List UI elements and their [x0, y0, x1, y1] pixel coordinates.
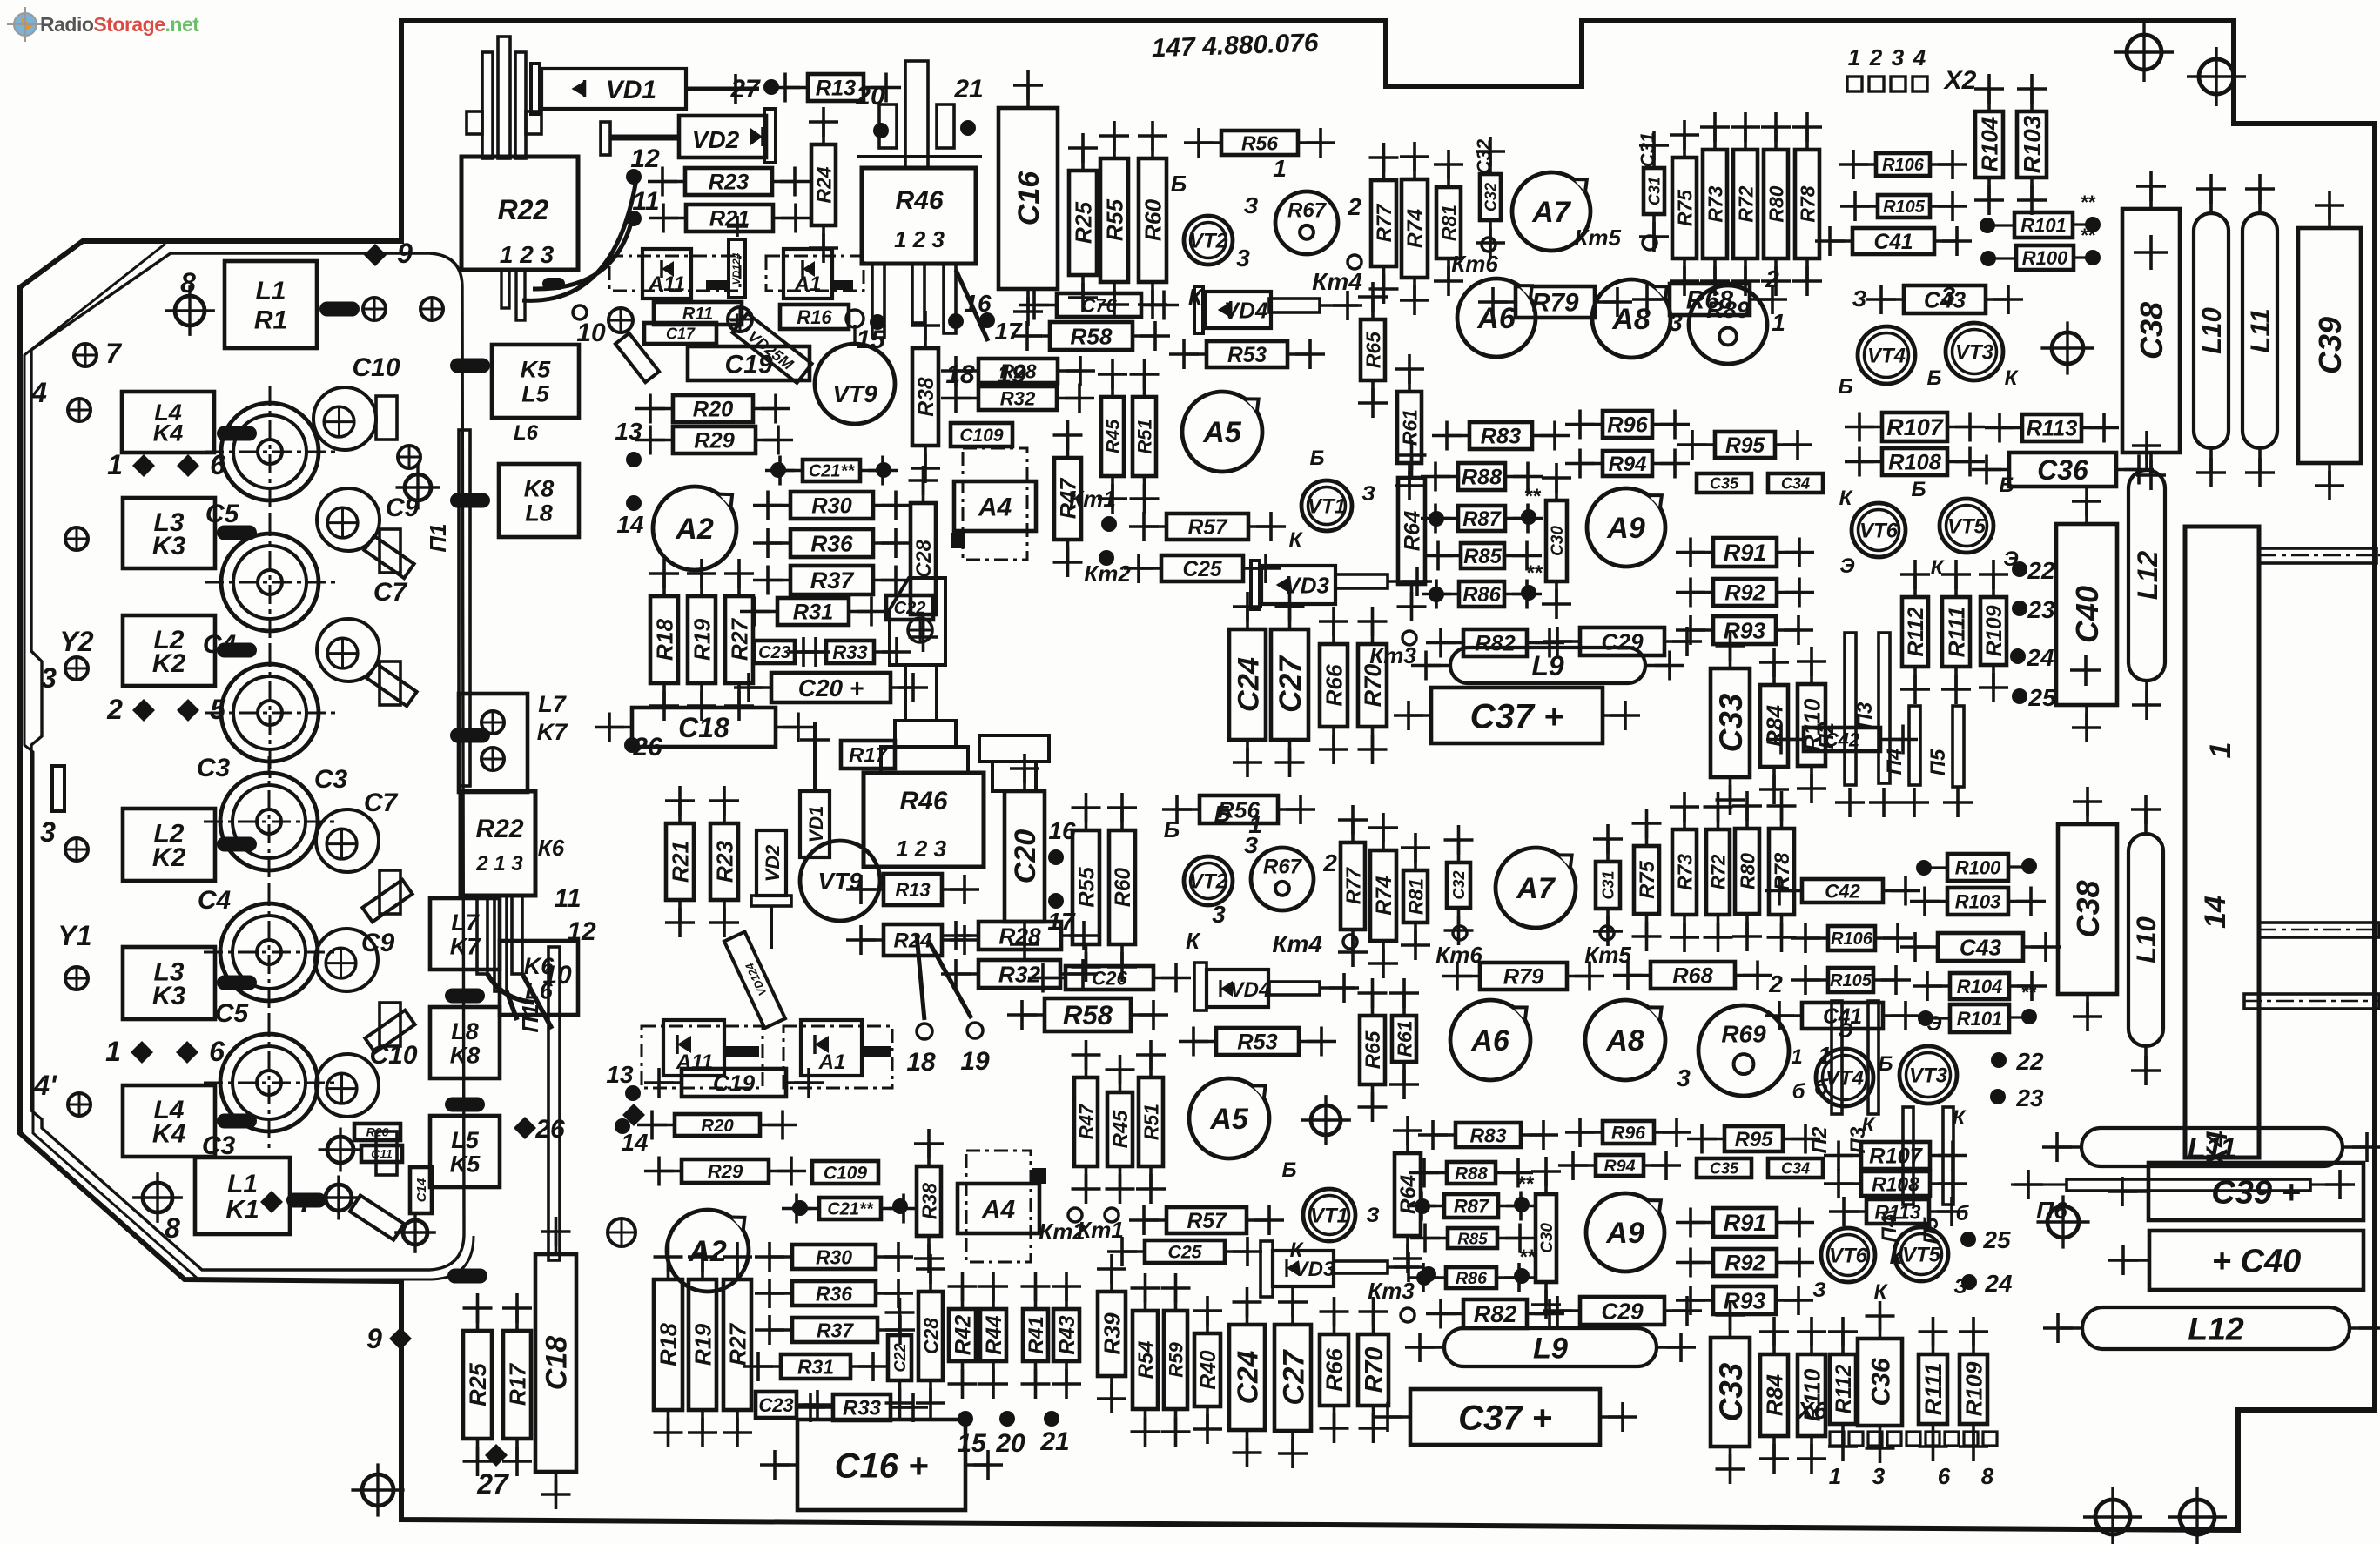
- resistor R65 top: [1358, 282, 1388, 418]
- capacitor C25 bottom: [1107, 1237, 1262, 1266]
- svg-text:R78: R78: [1771, 852, 1794, 890]
- svg-text:C27: C27: [1274, 655, 1308, 713]
- svg-text:20: 20: [995, 1429, 1025, 1458]
- IC A7 top: [1512, 172, 1590, 251]
- svg-text:R82: R82: [1474, 1301, 1517, 1327]
- capacitor C20 bottom: [1005, 754, 1045, 959]
- svg-text:A2: A2: [675, 513, 714, 546]
- svg-text:Б: Б: [1282, 1158, 1297, 1182]
- resistor R58 bottom: [1007, 998, 1168, 1031]
- diode VD1: [531, 64, 686, 114]
- svg-text:C38: C38: [2070, 880, 2106, 937]
- svg-text:З: З: [1812, 1279, 1825, 1302]
- svg-text:4': 4': [33, 1070, 57, 1101]
- svg-text:R105: R105: [1830, 971, 1872, 990]
- junction 24 top: [2010, 648, 2026, 664]
- svg-text:15: 15: [957, 1429, 987, 1458]
- svg-text:R24: R24: [893, 930, 931, 953]
- tuning capacitor section C1 top: [205, 386, 335, 517]
- potentiometer R67 top: [1275, 191, 1338, 254]
- trimmer capacitor C9 lower: [315, 929, 378, 991]
- svg-text:R16: R16: [797, 306, 832, 328]
- svg-text:C9: C9: [361, 929, 395, 957]
- svg-text:К: К: [1890, 1245, 1905, 1269]
- svg-text:R89: R89: [1706, 297, 1750, 323]
- resistor R84 top: [1759, 648, 1789, 804]
- transistor VT4 bottom: [1816, 1049, 1873, 1106]
- svg-text:З: З: [1361, 482, 1375, 506]
- bar П4 top: [1909, 706, 1920, 785]
- svg-text:C28: C28: [919, 1318, 942, 1354]
- svg-text:12: 12: [630, 144, 660, 173]
- svg-text:C17: C17: [666, 325, 696, 342]
- IC A9 top: [1587, 488, 1665, 567]
- svg-text:L10: L10: [2196, 306, 2227, 353]
- svg-text:1: 1: [2204, 742, 2237, 759]
- svg-text:A6: A6: [1476, 302, 1516, 335]
- test point Kt5 bottom: [1600, 926, 1614, 940]
- solder blob L3 lower: [217, 976, 257, 990]
- coil block L8 K8 bottom: [430, 1007, 500, 1078]
- pad 3 lower: [65, 838, 88, 861]
- svg-text:R51: R51: [1140, 1104, 1162, 1140]
- resistor R56 bottom: [1162, 795, 1315, 824]
- IC A8 bottom: [1585, 1000, 1665, 1080]
- junction 22 bottom: [1991, 1052, 2007, 1068]
- junction 20 top: [873, 123, 889, 138]
- svg-text:Кт6: Кт6: [1451, 251, 1498, 277]
- svg-text:6: 6: [210, 449, 225, 480]
- svg-text:R88: R88: [1462, 466, 1503, 490]
- diagonal capacitor C8 upper: [364, 536, 413, 579]
- svg-text:R60: R60: [1140, 199, 1166, 242]
- svg-text:R13: R13: [816, 77, 857, 101]
- resistor R64 bottom: [1393, 1116, 1422, 1273]
- svg-text:C14: C14: [414, 1178, 429, 1202]
- potentiometer R67 bottom: [1251, 848, 1314, 910]
- resistor R72 top: [1731, 112, 1760, 296]
- diamond pad 6 lower: [176, 1041, 198, 1064]
- small capacitor box C95 lower: [380, 1003, 400, 1046]
- svg-text:C35: C35: [1710, 1159, 1739, 1177]
- resistor R30 top: [753, 491, 911, 520]
- pad k5 link: [420, 298, 443, 320]
- resistor R54 bottom: [1131, 1273, 1160, 1447]
- lead R101 bottom: [1932, 1017, 1950, 1019]
- svg-text:L11: L11: [2245, 308, 2276, 352]
- diagonal capacitor C6 upper: [366, 664, 416, 707]
- resistor R110 top: [1797, 647, 1826, 803]
- svg-text:VD2: VD2: [762, 844, 783, 883]
- svg-text:C22: C22: [891, 1343, 909, 1372]
- svg-text:R40: R40: [1197, 1350, 1220, 1389]
- resistor R57 bottom: [1129, 1205, 1284, 1235]
- svg-text:K8: K8: [450, 1042, 481, 1068]
- inductor block L3 K3 upper: [123, 498, 215, 568]
- resistor R41 bottom: [1021, 1272, 1051, 1399]
- junction R101b left: [1918, 1010, 1933, 1026]
- svg-text:R31: R31: [793, 601, 834, 625]
- capacitor C14 bottom strip: [410, 1167, 432, 1213]
- svg-text:K5: K5: [450, 1151, 481, 1177]
- junction 11: [626, 211, 642, 226]
- solder blob bottom corner: [447, 1269, 487, 1284]
- transistor VT9 bottom: [800, 841, 880, 921]
- svg-text:2: 2: [106, 694, 123, 725]
- resistor R68 top: [1632, 284, 1787, 315]
- diode VD3 bottom: [1261, 1241, 1273, 1297]
- svg-text:R92: R92: [1724, 1252, 1765, 1276]
- diamond pad 5 upper: [177, 699, 199, 722]
- svg-text:R53: R53: [1237, 1030, 1278, 1055]
- resistor R81 top: [1434, 150, 1463, 296]
- diode module A11 bottom: [663, 1020, 724, 1076]
- resistor R88 top: [1421, 462, 1543, 492]
- svg-text:147 4.880.076: 147 4.880.076: [1151, 29, 1319, 64]
- svg-text:R27: R27: [724, 1323, 750, 1366]
- svg-text:C23: C23: [758, 643, 790, 662]
- svg-text:П3: П3: [1853, 702, 1877, 728]
- trimmer resistor body: [890, 578, 945, 665]
- svg-text:R86: R86: [1456, 1269, 1488, 1288]
- inductor block L2 K2 lower: [123, 809, 215, 881]
- svg-text:R32: R32: [1000, 387, 1036, 409]
- svg-text:R107: R107: [1886, 414, 1945, 440]
- svg-text:21: 21: [1039, 1427, 1069, 1456]
- capacitor C35 top: [1697, 473, 1751, 493]
- junction 22 top: [2012, 561, 2027, 577]
- test point Kt1 bottom: [1105, 1208, 1119, 1222]
- svg-text:R79: R79: [1503, 965, 1544, 990]
- resistor R110 bottom: [1797, 1317, 1826, 1474]
- solder blob R22 top: [542, 278, 565, 290]
- svg-text:R22: R22: [475, 815, 523, 843]
- mounting screw mid right: [2040, 321, 2094, 374]
- shaft below trimmer: [905, 665, 937, 721]
- transistor VT3 bottom: [1899, 1046, 1957, 1104]
- svg-text:VT5: VT5: [1902, 1244, 1941, 1267]
- capacitor C109 bottom: [812, 1161, 878, 1184]
- svg-text:R38: R38: [915, 377, 938, 416]
- svg-text:R111: R111: [1943, 607, 1969, 658]
- svg-text:C16: C16: [1012, 171, 1045, 225]
- svg-text:R87: R87: [1454, 1195, 1490, 1217]
- resistor R11 top: [654, 302, 742, 325]
- svg-text:R107: R107: [1869, 1145, 1924, 1169]
- svg-text:1: 1: [105, 1036, 121, 1067]
- svg-text:C33: C33: [1713, 693, 1749, 752]
- junction 25 bottom: [1960, 1232, 1976, 1247]
- diode VD2: [679, 116, 766, 158]
- svg-text:R46: R46: [895, 186, 943, 215]
- svg-text:VT1: VT1: [1308, 495, 1346, 519]
- test point Kt2 bottom: [1068, 1208, 1082, 1222]
- svg-text:VT2: VT2: [1189, 870, 1228, 894]
- resistor R51 top: [1130, 359, 1160, 514]
- svg-text:К: К: [1289, 528, 1304, 552]
- amplifier module A1 dashed frame: [766, 256, 864, 291]
- bar П4 bottom: [1903, 1107, 1913, 1205]
- potentiometer R22 bottom: [461, 791, 535, 896]
- resistor R40 bottom: [1193, 1296, 1222, 1444]
- svg-text:K4: K4: [153, 420, 184, 446]
- svg-text:R74: R74: [1404, 209, 1428, 248]
- mounting screw top right 1: [2114, 23, 2174, 82]
- svg-text:C20 +: C20 +: [798, 675, 864, 702]
- svg-text:R74: R74: [1373, 876, 1396, 915]
- svg-text:1 2 3: 1 2 3: [894, 226, 945, 252]
- diode module A11: [642, 249, 691, 299]
- svg-text:R36: R36: [816, 1282, 852, 1305]
- svg-text:L5: L5: [521, 381, 549, 407]
- svg-text:R106: R106: [1831, 930, 1873, 949]
- tuning capacitor section C5 area: [205, 517, 335, 648]
- svg-text:A5: A5: [1202, 416, 1242, 449]
- svg-text:З: З: [1244, 192, 1259, 218]
- svg-text:Б: Б: [2000, 473, 2014, 497]
- resistor R104 bottom: [1913, 971, 2047, 1001]
- capacitor C30 bottom: [1531, 1157, 1561, 1319]
- potentiometer R46 bottom: [864, 773, 984, 867]
- lead R100 bottom: [1930, 866, 1947, 869]
- svg-text:VT9: VT9: [832, 380, 877, 407]
- resistor R20 bottom: [637, 1111, 797, 1140]
- svg-text:R85: R85: [1463, 545, 1502, 568]
- inductor L9 bottom: [1405, 1328, 1696, 1366]
- svg-text:C43: C43: [1960, 934, 2002, 960]
- svg-text:VD4: VD4: [1224, 297, 1268, 323]
- svg-text:R77: R77: [1373, 203, 1396, 242]
- trimmer capacitor C9 top: [317, 488, 380, 551]
- vertical part VD124M bottom: [724, 932, 785, 1029]
- svg-text:A7: A7: [1516, 872, 1556, 905]
- svg-text:R70: R70: [1361, 1347, 1388, 1393]
- resistor R95 bottom: [1687, 1124, 1820, 1154]
- inductor block L1 R1: [225, 261, 317, 348]
- svg-text:Y1: Y1: [57, 920, 91, 951]
- diagonal resistor R10 top: [615, 333, 659, 382]
- resistor R91 top: [1676, 538, 1814, 567]
- resistor R93 bottom: [1676, 1286, 1813, 1315]
- junction R100b left: [1916, 860, 1932, 876]
- inner plus C40 top: [2070, 668, 2101, 672]
- svg-text:VT6: VT6: [1859, 520, 1899, 543]
- svg-text:A5: A5: [1209, 1103, 1249, 1136]
- capacitor C18 bottom: [535, 1217, 576, 1509]
- capacitor C28 top: [909, 466, 938, 652]
- resistor R65 bottom: [1358, 978, 1388, 1122]
- svg-text:C18: C18: [678, 712, 729, 743]
- resistor R37 top: [753, 566, 911, 595]
- svg-text:R104: R104: [1957, 976, 2003, 997]
- resistor R106 top: [1839, 150, 1967, 179]
- pad junction right R16: [728, 307, 752, 332]
- svg-text:A4: A4: [978, 493, 1012, 521]
- resistor R87 bottom: [1407, 1192, 1536, 1221]
- test point Kt3 top: [1402, 631, 1416, 645]
- svg-text:C31: C31: [1645, 177, 1663, 205]
- svg-text:C7: C7: [373, 578, 408, 607]
- svg-text:C24: C24: [1233, 1350, 1265, 1404]
- svg-text:1: 1: [107, 449, 123, 480]
- junction 16 top: [948, 313, 964, 329]
- resistor R94 bottom: [1558, 1151, 1681, 1180]
- diode module A1 bottom: [801, 1020, 862, 1076]
- diamond 7 bottom: [260, 1191, 283, 1213]
- svg-text:П4: П4: [1878, 1216, 1901, 1243]
- IC A2 top circle: [653, 487, 736, 570]
- resistor R78 top: [1792, 112, 1822, 296]
- junction 21 top: [960, 120, 976, 136]
- resistor R43 bottom: [1052, 1272, 1081, 1399]
- svg-text:Х6: Х6: [1796, 1397, 1828, 1424]
- svg-text:R84: R84: [1761, 1374, 1787, 1417]
- resistor R73 bottom: [1670, 792, 1699, 952]
- svg-text:+: +: [729, 306, 744, 335]
- svg-text:C36: C36: [1866, 1358, 1895, 1406]
- svg-text:K7: K7: [537, 719, 568, 745]
- junction 27 top: [763, 79, 779, 95]
- lead from VD4 top: [1269, 299, 1320, 312]
- svg-text:R38: R38: [918, 1183, 940, 1219]
- resistor R77 top: [1369, 143, 1399, 304]
- svg-text:A9: A9: [1606, 512, 1645, 545]
- resistor R112 bottom: [1828, 1317, 1858, 1461]
- svg-text:R72: R72: [1734, 185, 1757, 222]
- resistor R100 top: [2016, 245, 2074, 270]
- resistor R25 top: [1068, 133, 1098, 312]
- svg-text:Б: Б: [1879, 1052, 1893, 1076]
- resistor R108 bottom: [1824, 1169, 1967, 1198]
- test point Kt4 top: [1348, 255, 1361, 269]
- resistor R47 top: [1053, 420, 1083, 577]
- capacitor C40 top: [2056, 487, 2117, 742]
- svg-text:VD124: VD124: [730, 252, 743, 285]
- capacitor C35 bottom: [1697, 1158, 1751, 1178]
- junction C21 left: [770, 462, 786, 478]
- svg-text:R18: R18: [651, 619, 677, 661]
- svg-text:11: 11: [554, 884, 581, 913]
- svg-text:C30: C30: [1549, 526, 1567, 556]
- resistor R86 top: [1422, 580, 1542, 609]
- svg-text:R85: R85: [1457, 1229, 1488, 1247]
- RadioStorage.net logo icon: [7, 7, 44, 42]
- diamond pad 1 upper: [132, 454, 155, 477]
- capacitor C24 bottom: [1229, 1287, 1265, 1467]
- resistor R17 bottom: [502, 1293, 532, 1476]
- svg-text:C27: C27: [1277, 1349, 1310, 1406]
- svg-text:R1: R1: [254, 305, 287, 334]
- capacitor C39 top: [2298, 191, 2361, 500]
- capacitor C22 bottom: [885, 1298, 915, 1418]
- black bar A11 bottom: [724, 1046, 759, 1057]
- capacitor C27 bottom: [1274, 1287, 1311, 1468]
- transistor VT9 top: [815, 344, 895, 424]
- capacitor C31 bottom: [1593, 824, 1623, 946]
- module A11 bottom dashed frame: [642, 1026, 763, 1088]
- inductor block L2 K2 upper: [123, 615, 215, 686]
- svg-text:1: 1: [1791, 1045, 1802, 1069]
- coil block L7 K7 bottom: [430, 898, 500, 970]
- black tab A4 bottom: [1032, 1168, 1046, 1184]
- svg-text:VT4: VT4: [1867, 345, 1906, 368]
- svg-text:L7: L7: [538, 691, 567, 717]
- solder blob strip k8: [450, 493, 490, 508]
- small capacitor box C94 lower: [380, 870, 400, 914]
- resistor R19 top: [687, 559, 716, 721]
- svg-text:П1: П1: [425, 523, 451, 552]
- svg-text:C37 +: C37 +: [1458, 1399, 1552, 1437]
- resistor R113 bottom: [1829, 1197, 1967, 1226]
- lead R101: [1993, 224, 2014, 226]
- capacitor C32 bottom: [1444, 825, 1474, 945]
- inductor block L4 K4 upper: [122, 392, 214, 453]
- pin 18 bottom: [917, 1024, 932, 1039]
- svg-text:R28: R28: [998, 923, 1041, 949]
- screw R1 link: [394, 1212, 436, 1253]
- svg-text:A11: A11: [648, 272, 685, 296]
- capacitor C37 bottom: [1373, 1389, 1637, 1445]
- svg-text:K8: K8: [524, 476, 555, 502]
- module A1 bottom dashed frame: [783, 1026, 892, 1088]
- resistor R79 bottom: [1442, 962, 1604, 991]
- module A4 bottom: [958, 1184, 1039, 1233]
- transistor VT2 top: [1184, 216, 1233, 265]
- resistor R23 top: [648, 167, 810, 197]
- svg-text:24: 24: [2026, 644, 2054, 671]
- svg-text:R81: R81: [1404, 878, 1427, 915]
- svg-text:R33: R33: [843, 1397, 882, 1420]
- inductor block L1 K1: [195, 1158, 290, 1234]
- svg-text:3: 3: [40, 816, 56, 848]
- svg-text:R73: R73: [1704, 185, 1726, 222]
- bar П3 bottom: [1868, 1001, 1879, 1114]
- junction 17 top: [979, 312, 995, 328]
- resistor R70 bottom: [1358, 1297, 1388, 1443]
- resistor R92 top: [1676, 578, 1814, 608]
- svg-text:27: 27: [729, 75, 761, 104]
- capacitor C43 top: [1866, 285, 2023, 314]
- diamond 14 bottom: [622, 1104, 645, 1126]
- svg-text:C29: C29: [1601, 1298, 1644, 1324]
- capacitor C42 top: [1766, 725, 1918, 755]
- junction R87 right: [1521, 509, 1536, 525]
- svg-text:2: 2: [1768, 970, 1783, 997]
- svg-text:R82: R82: [1475, 632, 1516, 656]
- svg-text:R55: R55: [1075, 866, 1099, 907]
- resistor R57 top: [1129, 512, 1286, 541]
- trimmer capacitor C10 top: [313, 387, 376, 450]
- svg-text:C3: C3: [202, 1131, 236, 1160]
- tuning capacitor section C4 upper: [205, 648, 335, 778]
- resistor R42 bottom: [948, 1272, 978, 1399]
- screw L1K1 link: [317, 1176, 361, 1220]
- test point Kt4 bottom: [1343, 935, 1357, 949]
- vertical part VD124M between A11 and A1: [729, 239, 745, 298]
- svg-text:8: 8: [1981, 1463, 1994, 1489]
- capacitor C17 top: [644, 323, 716, 344]
- capacitor C21 bottom: [782, 1194, 918, 1224]
- small capacitor box C94 upper: [376, 396, 397, 440]
- svg-text:VT3: VT3: [1955, 341, 1994, 365]
- potentiometer R89 top: [1689, 285, 1767, 364]
- resistor R105 bottom: [1791, 965, 1911, 995]
- tuner sub-board inner outline: [31, 253, 464, 1270]
- svg-text:14: 14: [616, 511, 644, 538]
- resistor R109 top: [1979, 560, 2008, 702]
- svg-text:9: 9: [366, 1323, 382, 1354]
- svg-text:L6: L6: [514, 421, 539, 445]
